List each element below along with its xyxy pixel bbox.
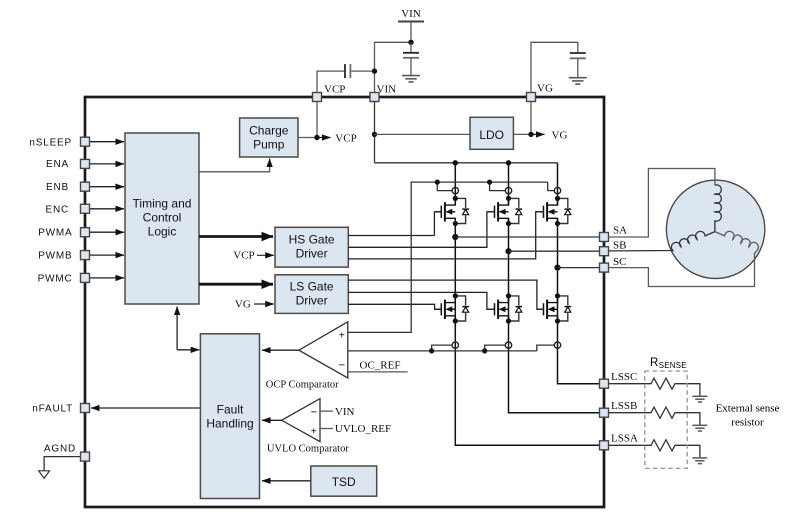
transistor Q5 low-side B: [488, 293, 523, 323]
svg-text:AGND: AGND: [44, 444, 76, 455]
wire phase B vertical: [509, 163, 600, 413]
wire Timing to HS Gate Driver (thick): [199, 235, 273, 238]
svg-text:−: −: [339, 360, 345, 372]
pin nSLEEP: [29, 137, 124, 148]
ground VIN cap: [402, 76, 420, 82]
pin AGND: [44, 444, 90, 471]
svg-text:VG: VG: [235, 298, 251, 310]
node SB tee: [505, 248, 511, 254]
resistor R sense A: [609, 440, 708, 464]
sense tap circle LS A: [452, 342, 458, 348]
block HS Gate Driver: [275, 227, 348, 267]
block Timing and Control Logic: [125, 133, 199, 304]
svg-text:SB: SB: [613, 240, 626, 252]
svg-text:Charge: Charge: [249, 124, 289, 138]
pin ENB: [46, 182, 124, 193]
terminal LSSA: [600, 433, 638, 450]
svg-text:Driver: Driver: [296, 294, 328, 308]
transistor Q1 high-side A: [434, 196, 469, 226]
node SA tee: [452, 234, 458, 240]
wire LS sense jog B: [485, 345, 506, 351]
svg-text:VIN: VIN: [335, 406, 355, 418]
svg-text:R: R: [650, 357, 658, 369]
dashed box around sense resistors: [645, 371, 687, 468]
wire to LDO: [375, 133, 471, 135]
label VIN input with wire: [320, 406, 355, 418]
capacitor VG bypass: [570, 53, 586, 77]
wire HS sense jog B: [490, 182, 506, 191]
svg-text:UVLO_REF: UVLO_REF: [335, 423, 391, 435]
svg-text:VCP: VCP: [233, 250, 254, 262]
svg-text:External sense: External sense: [716, 403, 780, 415]
node drain rail phase A: [453, 160, 458, 165]
label OC_REF with wire: [348, 360, 407, 372]
label VG into LS driver: [235, 298, 274, 310]
transistor Q6 low-side C: [537, 293, 572, 323]
sense tap circle LS C: [554, 342, 560, 348]
sense tap circle HS B: [505, 187, 511, 193]
wire LDO output to VG: [513, 102, 544, 135]
svg-text:Fault: Fault: [217, 403, 244, 417]
winding motor top coil: [715, 185, 721, 232]
supply VIN: [398, 8, 424, 42]
svg-text:LS Gate: LS Gate: [290, 280, 334, 294]
node VG out: [528, 132, 533, 137]
transistor Q4 low-side A: [434, 293, 469, 323]
wire LS driver out3 to gate A: [348, 304, 441, 309]
resistor R sense C: [609, 378, 708, 402]
ground AGND triangle: [39, 471, 50, 479]
node VIN-cap junction: [408, 40, 413, 45]
pin PWMB: [38, 251, 124, 262]
svg-text:SENSE: SENSE: [659, 361, 687, 370]
pin nFAULT: [32, 404, 200, 415]
node LS sense A: [429, 348, 434, 353]
node LDO input tee: [372, 132, 377, 137]
sense tap circle HS C: [554, 187, 560, 193]
wire HS sense jog C: [548, 182, 555, 191]
transistor Q2 high-side B: [488, 196, 523, 226]
wire Fault to Timing (bidirectional elbow): [177, 307, 199, 350]
wire Timing to LS Gate Driver (thick): [199, 283, 273, 286]
svg-text:LSSB: LSSB: [611, 400, 637, 412]
main device outline box: [85, 97, 604, 507]
terminal VG: [527, 83, 553, 102]
svg-text:VG: VG: [537, 83, 553, 95]
block LS Gate Driver: [275, 275, 348, 314]
pin ENC: [45, 204, 124, 215]
pin PWMC: [38, 273, 124, 284]
node HS sense A: [435, 180, 440, 185]
svg-text:LSSA: LSSA: [611, 433, 638, 445]
wire HS overcurrent sense rail: [348, 182, 548, 332]
svg-text:Handling: Handling: [206, 417, 253, 431]
node drain rail phase B: [506, 160, 511, 165]
label External sense resistor: [716, 403, 780, 429]
svg-text:LDO: LDO: [479, 128, 504, 142]
label UVLO_REF input with wire: [320, 423, 391, 435]
block Fault Handling: [200, 334, 259, 499]
svg-text:VG: VG: [552, 130, 568, 142]
wire SA: [455, 236, 599, 238]
op-amp UVLO comparator: [282, 399, 320, 442]
svg-text:PWMA: PWMA: [38, 228, 72, 239]
svg-text:+: +: [311, 426, 317, 437]
svg-text:ENC: ENC: [45, 204, 69, 215]
wire SB: [509, 250, 600, 252]
wire LS overcurrent sense rail: [348, 350, 537, 352]
svg-text:PWMC: PWMC: [38, 273, 73, 284]
svg-text:UVLO Comparator: UVLO Comparator: [267, 443, 349, 454]
capacitor VIN bypass: [403, 42, 419, 75]
winding motor left coil: [609, 231, 715, 251]
svg-text:OCP Comparator: OCP Comparator: [266, 380, 339, 391]
block TSD: [311, 466, 377, 496]
sense tap circle HS A: [452, 187, 458, 193]
terminal SA: [600, 225, 628, 242]
svg-text:Logic: Logic: [148, 225, 177, 239]
label VCP into HS driver: [233, 250, 274, 262]
wire LS sense jog C: [537, 345, 555, 351]
motor three-phase: [666, 180, 764, 278]
wire LS sense jog A: [432, 345, 453, 351]
svg-text:PWMB: PWMB: [38, 251, 72, 262]
svg-text:nSLEEP: nSLEEP: [29, 137, 72, 148]
winding motor right coil: [609, 231, 759, 286]
node VCP cap to VIN wire: [372, 68, 377, 73]
label R SENSE: [650, 357, 687, 370]
wire TSD to Fault: [262, 480, 311, 482]
terminal VIN: [370, 84, 396, 102]
svg-text:Timing and: Timing and: [133, 197, 192, 211]
svg-text:HS Gate: HS Gate: [289, 233, 335, 247]
wire SA to motor: [609, 169, 715, 238]
terminal LSSC: [600, 371, 638, 388]
wire VIN supply to VIN terminal: [375, 42, 412, 97]
svg-text:Control: Control: [143, 211, 182, 225]
terminal LSSB: [600, 400, 638, 417]
block LDO: [470, 117, 513, 149]
svg-text:VCP: VCP: [335, 132, 356, 144]
wire VIN drain rail: [375, 162, 558, 164]
svg-text:SC: SC: [613, 256, 626, 268]
wire VIN terminal down to LDO tee: [374, 102, 376, 163]
op-amp OCP comparator: [299, 322, 348, 378]
node SC tee: [554, 265, 560, 271]
wire LS driver out2 to gate B: [348, 292, 494, 309]
svg-text:Pump: Pump: [253, 138, 285, 152]
wire SC: [558, 267, 600, 269]
wire phase C vertical: [558, 163, 600, 384]
capacitor VCP flying (series): [317, 64, 375, 97]
node VCP out: [314, 135, 319, 140]
svg-text:nFAULT: nFAULT: [32, 404, 73, 415]
svg-text:−: −: [311, 406, 317, 418]
block Charge Pump: [240, 118, 298, 157]
wire VG terminal to bypass cap: [531, 42, 578, 97]
wire OCP output to Fault: [262, 349, 299, 351]
svg-text:resistor: resistor: [731, 417, 764, 429]
pin ENA: [46, 159, 124, 170]
wire Timing to Charge Pump: [199, 159, 270, 172]
wire UVLO output to Fault: [262, 419, 282, 421]
svg-text:OC_REF: OC_REF: [360, 360, 401, 372]
svg-text:LSSC: LSSC: [611, 371, 637, 383]
svg-text:ENA: ENA: [46, 159, 69, 170]
svg-text:Driver: Driver: [296, 247, 328, 261]
wire HS driver out1 to gate A: [348, 212, 434, 236]
resistor R sense B: [609, 407, 708, 431]
svg-text:+: +: [339, 330, 345, 341]
svg-text:ENB: ENB: [46, 182, 69, 193]
wire Charge Pump output to VCP: [298, 102, 331, 138]
pin PWMA: [38, 228, 124, 239]
svg-text:SA: SA: [613, 225, 627, 237]
svg-text:VIN: VIN: [401, 8, 421, 20]
svg-text:TSD: TSD: [332, 475, 356, 489]
node LS sense B: [482, 348, 487, 353]
svg-text:VCP: VCP: [324, 84, 345, 96]
wire HS driver out2 to gate B: [348, 212, 494, 248]
wire LS driver out1 to gate C: [348, 280, 543, 309]
wire HS driver out3 to gate C: [348, 212, 543, 259]
node HS sense B: [487, 180, 492, 185]
wire phase A vertical: [455, 163, 599, 446]
transistor Q3 high-side C: [537, 196, 572, 226]
terminal SC: [600, 256, 627, 272]
sense tap circle LS B: [505, 342, 511, 348]
terminal SB: [600, 240, 627, 256]
wire HS sense jog A: [437, 182, 452, 191]
terminal VCP: [313, 84, 346, 102]
ground VG cap: [569, 78, 587, 84]
